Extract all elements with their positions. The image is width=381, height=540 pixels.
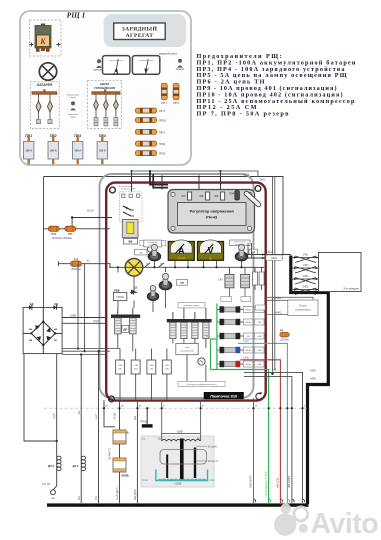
wire ДС2 to machine — [53, 472, 57, 489]
fuse ПР1 100А — [24, 134, 34, 164]
diode Д8 — [130, 285, 138, 294]
knife switch 5 (control) — [114, 94, 119, 126]
svg-text:39Ом: 39Ом — [245, 364, 251, 366]
junction dot — [271, 373, 273, 375]
svg-text:3401: 3401 — [260, 178, 266, 182]
resistor Р11 — [65, 226, 76, 236]
svg-text:ВК: ВК — [129, 240, 133, 244]
svg-text:270Ом: 270Ом — [116, 295, 124, 299]
sensor ДС1 — [71, 456, 85, 472]
svg-text:ПР 7: ПР 7 — [161, 101, 167, 105]
wire fuse to bus — [119, 472, 121, 503]
ammeter A (panel) — [103, 56, 130, 76]
junction dots top rails — [131, 170, 222, 178]
label н402 — [256, 305, 288, 314]
svg-text:Р12: Р12 — [51, 232, 56, 236]
wire signal pair step — [266, 297, 314, 300]
note контроль предохранителей — [178, 381, 225, 386]
wire between fuses — [119, 444, 121, 458]
contactor К — [30, 24, 61, 52]
svg-text:ПР 5: ПР 5 — [159, 130, 165, 134]
choke ДР — [111, 308, 140, 334]
svg-text:аппарату +50В: аппарату +50В — [121, 188, 136, 190]
bus right (thick polyline) — [291, 256, 329, 505]
fuse ПР10 (horizontal) — [135, 118, 166, 123]
svg-text:АТ12: АТ12 — [93, 320, 99, 323]
svg-text:Н17 1В: Н17 1В — [42, 484, 50, 486]
resistor С31 row2 — [217, 319, 264, 325]
wire drop from regulator right — [273, 177, 275, 374]
fuse ПР9 (horizontal) — [135, 108, 165, 113]
svg-text:100 А: 100 А — [50, 150, 57, 153]
svg-text:УПРАВЛЕНИЯ: УПРАВЛЕНИЯ — [94, 86, 116, 90]
node section feeder 2 (cross) — [291, 264, 338, 273]
ground ГР/ПЩ — [140, 408, 153, 427]
label box ЯЧ1 — [221, 288, 232, 302]
lamp ЛС (yellow) — [125, 259, 143, 277]
machine озп — [51, 490, 56, 500]
svg-text:батарея: батарея — [176, 69, 185, 71]
lamp (circle with X) — [39, 63, 56, 80]
junction dots on bus — [153, 266, 242, 268]
svg-text:ДР: ДР — [123, 327, 127, 331]
nameplate Лампочка 810 — [204, 392, 244, 399]
resistor С37 — [147, 349, 156, 401]
svg-text:зарядный агрегат: зарядный агрегат — [159, 52, 179, 55]
box 2-я секция — [319, 253, 362, 292]
svg-text:чн1В (ДСТ): чн1В (ДСТ) — [116, 487, 119, 500]
resistor R9 (on plate) — [215, 192, 225, 200]
diode bridgeВ — [23, 320, 62, 353]
wire drop ДС2 feed — [56, 354, 58, 458]
wire ДР legs to resistors — [118, 334, 133, 351]
junction dot — [71, 216, 73, 218]
resistor Р12 — [48, 226, 59, 236]
svg-text:РН-43: РН-43 — [206, 215, 218, 220]
svg-text:ЗАРЯДНЫЙ: ЗАРЯДНЫЙ — [122, 24, 158, 32]
bus bottom (thick) — [47, 503, 309, 506]
label box а — [135, 249, 148, 255]
resistor Р15 — [58, 258, 110, 271]
svg-text:100 А: 100 А — [74, 150, 81, 153]
svg-text:АН13: АН13 — [114, 412, 117, 419]
wire left stub below bridge — [24, 354, 57, 441]
svg-text:302: 302 — [134, 415, 137, 420]
svg-text:R9: R9 — [215, 194, 219, 198]
svg-text:3405: 3405 — [310, 377, 316, 381]
contact pair (aux switch) — [123, 206, 134, 216]
svg-text:ПР10: ПР10 — [159, 119, 166, 123]
junction dots below cabinet — [103, 407, 202, 409]
icon заряд selector — [67, 93, 80, 118]
resistor РВ8 — [113, 266, 126, 300]
wire drop 25 — [104, 400, 115, 427]
svg-text:Нормальный: Нормальный — [67, 93, 80, 96]
svg-text:ПР11: ПР11 — [159, 142, 166, 146]
switch ВР1 (toggle) — [144, 240, 162, 261]
svg-text:РВ8: РВ8 — [114, 288, 120, 292]
screw top-right — [255, 186, 261, 192]
icon батарея — [176, 59, 185, 71]
capacitor С41 — [241, 267, 257, 288]
resistor С34 row5 (red) — [217, 361, 264, 367]
resistor С36 — [131, 349, 140, 401]
svg-text:НЕ В щитке (7П, 2ТЛ): НЕ В щитке (7П, 2ТЛ) — [265, 471, 268, 496]
heater unit РУ box — [141, 436, 214, 487]
resistor С32 row3 — [217, 333, 264, 339]
switch toggle row3 — [147, 285, 159, 300]
rectifier block — [176, 344, 198, 355]
svg-text:чн1Б: чн1Б — [53, 413, 56, 419]
wire into bridge — [42, 307, 44, 321]
svg-text:+Н401: +Н401 — [274, 297, 282, 300]
knife switch 1 (battery) — [36, 94, 41, 123]
transformer core bar 2 — [194, 448, 196, 479]
wire teal С112 branch — [238, 343, 287, 503]
junction dot — [97, 350, 99, 352]
junction dot — [56, 440, 58, 442]
wire drops into heater — [162, 400, 201, 441]
wire resistor row — [44, 228, 111, 230]
wire ДС1 to bus — [80, 472, 82, 503]
svg-text:чн1Г: чн1Г — [95, 413, 98, 419]
note к приборам безопасности — [140, 240, 166, 246]
fuse ПР8 (vertical) — [173, 83, 179, 105]
svg-text:С40: С40 — [218, 279, 223, 282]
label 3401 small box — [266, 250, 282, 260]
fuse ПР12 (horizontal) — [135, 151, 166, 156]
svg-text:К: К — [39, 37, 46, 46]
resistor С38 — [162, 349, 171, 401]
svg-text:АГРЕГАТ: АГРЕГАТ — [126, 33, 154, 39]
wire pair 3402 3405 — [244, 372, 303, 503]
junction dot — [77, 347, 79, 349]
wire link — [196, 446, 207, 461]
svg-text:+50В: +50В — [177, 430, 183, 433]
sync machine symbol — [198, 358, 205, 365]
svg-text:ДС1: ДС1 — [71, 464, 78, 468]
resistor С35 — [116, 349, 125, 401]
svg-text:тепловая защита: тепловая защита — [184, 305, 201, 307]
switch ВР2 (toggle) — [235, 244, 248, 261]
junction dashed separator line — [44, 407, 307, 409]
watermark Avito logo — [274, 503, 378, 540]
label box вольтметр — [230, 240, 251, 246]
junction dot — [80, 353, 82, 355]
wire meter drops — [154, 260, 241, 267]
junction dots on bus — [80, 503, 139, 506]
diode 2Д — [54, 302, 58, 310]
box Зарядный агрегат — [104, 14, 186, 47]
wire Н119 — [72, 218, 112, 227]
svg-text:НБ: НБ — [207, 336, 211, 339]
fuse ПР2 100А — [48, 134, 58, 164]
svg-text:БАТАРЕЯ: БАТАРЕЯ — [37, 83, 52, 87]
label box ВР — [249, 249, 258, 254]
resistor РК25 (150Ом) — [280, 329, 289, 341]
svg-text:9119 (АПЛ): 9119 (АПЛ) — [250, 475, 253, 488]
svg-text:200В: 200В — [122, 473, 130, 477]
svg-text:заряд: заряд — [70, 116, 76, 118]
diode 1Д — [29, 302, 33, 310]
fuse ПР7 (vertical) — [161, 83, 167, 105]
svg-text:С112: С112 — [209, 479, 215, 482]
wire grey drop 9119 — [253, 398, 255, 503]
svg-text:3Б1: 3Б1 — [78, 495, 81, 500]
svg-text:Н119: Н119 — [87, 208, 94, 212]
regulator unit РН-43 plate — [168, 190, 255, 234]
svg-text:н49 (СМ): н49 (СМ) — [277, 477, 280, 488]
svg-text:(500Ом): (500Ом) — [71, 267, 81, 271]
svg-text:Н118: Н118 — [243, 172, 250, 176]
svg-text:ПР12: ПР12 — [159, 152, 166, 156]
svg-text:СЗБ: СЗБ — [134, 365, 139, 367]
bell symbol — [147, 247, 152, 252]
cabinet frame (dark red) — [106, 183, 266, 401]
resistor С45 — [253, 267, 258, 290]
transformer core bar 1 — [180, 439, 184, 481]
mounting plate outline (grey) — [100, 174, 254, 398]
svg-text:ПЭ4: ПЭ4 — [229, 191, 235, 195]
fuse ПР5 (horizontal) — [135, 129, 165, 134]
svg-text:302 (ДСТ): 302 (ДСТ) — [134, 489, 137, 500]
wire bridge to cabinet 240Б — [62, 317, 106, 319]
svg-text:Р11: Р11 — [68, 232, 73, 236]
svg-text:сигнализации: сигнализации — [295, 308, 311, 311]
svg-text:R7: R7 — [182, 194, 186, 198]
svg-text:АЗ 496 СП: АЗ 496 СП — [109, 448, 112, 460]
svg-text:3401: 3401 — [266, 250, 272, 254]
transformer core bar 3 — [166, 455, 168, 479]
wire drop 302 — [136, 400, 138, 503]
capacitor С40 — [218, 267, 234, 288]
svg-text:39Ом: 39Ом — [245, 310, 251, 312]
svg-text:Н118: Н118 — [271, 256, 278, 260]
svg-text:( контроль предохранителей ): ( контроль предохранителей ) — [186, 383, 217, 386]
wire drop to bundle A — [77, 264, 79, 349]
label box панель реле — [178, 303, 205, 308]
resistor С30 row1 — [217, 306, 264, 312]
svg-text:2402: 2402 — [303, 264, 309, 267]
svg-text:+Н402: +Н402 — [274, 311, 282, 314]
wire drop x98 — [98, 351, 100, 503]
exciter box МВ — [23, 307, 62, 353]
wire ТР legs down — [173, 339, 206, 382]
svg-text:2403: 2403 — [303, 275, 309, 278]
enclosure БАТАРЕЯ — [30, 82, 59, 129]
svg-text:РЩ 1: РЩ 1 — [67, 11, 86, 20]
svg-text:выпрямителей: выпрямителей — [180, 349, 194, 352]
panel РЩ1 enclosure — [20, 11, 191, 165]
heating element (teal) — [156, 470, 208, 481]
label box ТР — [177, 280, 188, 286]
svg-text:А: А — [113, 68, 119, 76]
svg-text:+300В: +300В — [174, 483, 182, 486]
svg-text:341: 341 — [95, 495, 98, 500]
fuse ПР4 100А — [97, 134, 107, 164]
svg-text:С112: С112 — [243, 340, 249, 343]
svg-text:ЭА54: ЭА54 — [177, 256, 186, 260]
wire drop to fuse — [119, 400, 121, 430]
svg-text:-ЯЧ: -ЯЧ — [257, 364, 261, 366]
svg-text:2-я секция: 2-я секция — [343, 287, 358, 291]
wire top rail H118 — [44, 177, 284, 256]
svg-text:ГРПЩ: ГРПЩ — [140, 420, 148, 423]
note Предохранители РЩ list — [197, 53, 356, 118]
svg-text:R4: R4 — [200, 194, 204, 198]
svg-text:(150Ом): (150Ом) — [280, 340, 289, 342]
winding loop secondary — [160, 450, 207, 465]
svg-text:ДС2: ДС2 — [47, 464, 54, 468]
svg-text:ЗБ: ЗБ — [54, 340, 57, 342]
node section feeder 1 (cross) — [291, 254, 338, 263]
box В цепи сигнализации — [288, 300, 318, 316]
contact slashes — [145, 263, 165, 268]
svg-text:39Ом: 39Ом — [245, 350, 251, 352]
junction dots bottom feeders — [252, 407, 303, 409]
knife switch 3 (control) — [94, 94, 99, 126]
svg-text:С111: С111 — [143, 479, 149, 482]
svg-text:2405: 2405 — [303, 286, 309, 289]
wire pair to section bus — [248, 255, 291, 259]
handle (lever) — [247, 194, 259, 205]
voltmeter V (panel) — [132, 56, 159, 76]
svg-text:В цепи: В цепи — [299, 305, 307, 308]
svg-text:39Ом: 39Ом — [245, 322, 251, 324]
svg-text:заряд: заряд — [70, 97, 76, 99]
svg-text:С105: С105 — [243, 357, 249, 360]
svg-text:н68 (ЭМП): н68 (ЭМП) — [288, 476, 291, 488]
voltmeter V (olive) — [198, 240, 224, 260]
resistor С46 — [259, 267, 264, 290]
svg-text:+ЯЧ: +ЯЧ — [257, 350, 262, 352]
contactor К dashed enclosure — [30, 20, 62, 56]
knife switch 4 (control) — [104, 94, 109, 126]
svg-text:Avito: Avito — [311, 508, 379, 540]
enclosure ЦЕПИ УПРАВЛЕНИЯ — [88, 80, 122, 128]
svg-text:ЯБ: ЯБ — [29, 340, 33, 342]
svg-text:АБ: АБ — [29, 328, 33, 331]
resistor С33 row4 (blue) — [217, 347, 264, 353]
wires second row to transformers — [118, 276, 166, 312]
relay ВК body — [122, 219, 138, 244]
svg-text:Усиленный: Усиленный — [68, 113, 80, 116]
heating element scallops (teal) — [158, 479, 206, 481]
svg-text:ТР: ТР — [180, 281, 184, 285]
svg-text:Регулятор напряжения: Регулятор напряжения — [190, 209, 234, 214]
svg-text:3402: 3402 — [310, 368, 316, 372]
fuse ПР11 (horizontal) — [135, 141, 165, 146]
wire feeds into regulator — [132, 171, 221, 192]
screw bottom-left — [109, 396, 115, 402]
screw top-left — [110, 187, 116, 193]
svg-text:Лампочка 810: Лампочка 810 — [210, 393, 238, 398]
transformer ТР2 winding top — [162, 439, 200, 441]
junction dot — [83, 350, 85, 352]
svg-text:∆: ∆ — [209, 256, 211, 260]
svg-text:+ЯЧ: +ЯЧ — [257, 336, 262, 338]
svg-text:240Б: 240Б — [70, 313, 76, 317]
svg-text:СЗБ: СЗБ — [165, 365, 170, 367]
wire bridge to cabinet 2 — [62, 322, 106, 324]
knife switch 2 (battery) — [47, 94, 52, 123]
svg-text:3Б: 3Б — [78, 411, 81, 414]
icon освещение — [93, 59, 106, 71]
svg-text:100 А: 100 А — [99, 150, 106, 153]
screw bottom-right (rotated) — [256, 393, 262, 399]
svg-text:СЗБ: СЗБ — [149, 365, 154, 367]
svg-text:КЗ щит8: КЗ щит8 — [208, 446, 218, 448]
node section feeder 4 (cross) — [291, 286, 338, 295]
ammeter А (olive) — [168, 240, 194, 260]
wire ends hooks — [254, 499, 305, 502]
terminal strip dashed enclosure — [120, 192, 142, 222]
terminals 1 2 3 — [122, 194, 140, 197]
svg-text:100 А: 100 А — [25, 150, 32, 153]
wire green net — [211, 304, 269, 504]
wire main bus internal — [109, 266, 264, 268]
svg-text:-ОВ: -ОВ — [257, 322, 261, 324]
node section feeder 3 (cross) — [291, 275, 338, 284]
fuse 200В (lower) — [113, 458, 130, 477]
wire left rail — [43, 177, 45, 308]
sensor ДС2 — [47, 456, 61, 472]
wire bundle below bridge — [62, 349, 120, 355]
wire drop ДС1 feed — [80, 355, 82, 459]
resistor R7 (on plate) — [182, 192, 192, 200]
svg-text:НБ: НБ — [54, 329, 58, 331]
wire drop to bundle B — [84, 264, 86, 352]
resistor R4 (on plate) — [200, 192, 210, 200]
svg-text:СЗБ: СЗБ — [118, 365, 123, 367]
svg-text:блок: блок — [185, 347, 189, 349]
svg-text:2401: 2401 — [303, 254, 309, 257]
fuse 200А (upper) — [113, 430, 130, 444]
switch ТР (toggle row2) — [159, 267, 172, 290]
transformer ТР (4-leg) — [167, 308, 212, 339]
svg-text:ПР 9: ПР 9 — [159, 109, 165, 113]
svg-text:ЗЯ: ЗЯ — [247, 336, 250, 338]
junction dot 2 — [274, 368, 276, 370]
svg-text:(470Ом) 1500Ом: (470Ом) 1500Ом — [52, 236, 72, 240]
wire red С105 branch — [240, 360, 280, 503]
svg-text:Д8: Д8 — [134, 285, 138, 289]
svg-text:КЗ щит17: КЗ щит17 — [208, 461, 219, 463]
svg-text:ПР 8: ПР 8 — [173, 101, 179, 105]
capacitor ПЭ4 (on plate) — [229, 191, 239, 201]
fuse ПР3 100А — [73, 134, 83, 164]
wire upper rail 2 — [132, 171, 259, 177]
label box ЯЧ2 — [241, 288, 251, 302]
